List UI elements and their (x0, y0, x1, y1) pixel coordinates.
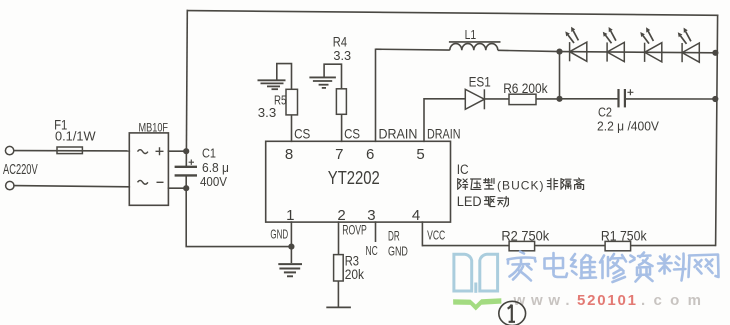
svg-text:DRAIN: DRAIN (379, 126, 418, 141)
wm char 网 (689, 255, 719, 278)
wire pin5 DRAIN riser to ES1 row (423, 99, 425, 142)
wire ES1 to R6 (484, 98, 509, 100)
svg-text:8: 8 (285, 146, 293, 163)
wire bottom bus VCC to R2 (422, 245, 509, 247)
svg-text:LED: LED (457, 194, 482, 209)
wire riser junction to ES1 row (559, 52, 561, 99)
wire L1 to LED string (498, 50, 560, 51)
watermark chinese text 家电维修资料网 (508, 252, 719, 283)
capacitor C1 plates (175, 167, 197, 176)
svg-text:DR: DR (388, 229, 400, 244)
svg-text:2.2 μ /400V: 2.2 μ /400V (597, 120, 660, 134)
IC U1 YT2202 box (266, 141, 451, 222)
wire R6 to junction (536, 98, 560, 100)
figure number circled 1 (499, 301, 526, 325)
wm char 资 (630, 253, 653, 282)
wire R5 top jog to ground (277, 64, 292, 90)
wire pin2 ROVP to R3 (338, 222, 340, 255)
LED D1 (568, 31, 587, 62)
junction node bridge-/C1 (183, 185, 189, 191)
wire right bus (716, 15, 718, 245)
wire bridge + output (168, 150, 186, 152)
wire top bus (187, 11, 717, 16)
svg-text:IC: IC (457, 162, 469, 177)
svg-text:1: 1 (286, 207, 294, 224)
LED D4 (681, 32, 700, 63)
svg-text:ES1: ES1 (469, 74, 491, 89)
svg-text:NC: NC (366, 243, 378, 258)
svg-text:6: 6 (366, 146, 374, 163)
resistor R5 body (286, 89, 298, 115)
wire LED row (560, 52, 716, 53)
svg-text:R2 750k: R2 750k (501, 229, 549, 244)
char 隔 (561, 179, 571, 190)
terminal AC220V neutral (6, 181, 14, 189)
svg-text:R1 750k: R1 750k (601, 229, 647, 244)
C2 polarity + (627, 89, 633, 95)
svg-text:CS: CS (294, 125, 310, 141)
svg-text:L1: L1 (465, 27, 477, 42)
char 驱 (485, 197, 495, 207)
svg-text:(BUCK): (BUCK) (497, 178, 544, 192)
bridge ~ - markings bottom row (138, 180, 148, 184)
ground for R4 (309, 77, 336, 88)
svg-text:3.3: 3.3 (333, 48, 351, 63)
wire pin7 to R4 (341, 114, 343, 141)
svg-text:AC220V: AC220V (3, 162, 38, 178)
svg-text:4: 4 (412, 207, 420, 224)
svg-text:GND: GND (270, 226, 288, 241)
resistor R2 body (509, 241, 534, 250)
wire junction to C2 (560, 98, 619, 100)
svg-text:VCC: VCC (427, 228, 445, 243)
wire R4 top jog to ground (324, 64, 341, 89)
terminal bar under R3 (326, 306, 351, 308)
LED D3 (643, 31, 662, 62)
wire R3 to terminal bar (337, 281, 339, 307)
resistor R4 body (336, 89, 346, 115)
diode ES1 (424, 89, 509, 109)
junction node LED cathode / right bus (712, 50, 718, 56)
wire pin6 DRAIN riser to L1 row (375, 49, 377, 141)
wire R1 to right bus corner (631, 244, 716, 246)
svg-text:GND: GND (388, 243, 408, 258)
wire left riser from top bus to C1 (186, 11, 187, 167)
bridge ~ + markings top row (138, 150, 148, 154)
wire C2 to right bus (625, 98, 715, 100)
svg-text:www.: www. (513, 292, 570, 309)
junction node C2 / right bus (712, 96, 718, 102)
svg-text:ROVP: ROVP (342, 222, 367, 237)
wire bridge - output (168, 187, 186, 189)
svg-text:7: 7 (335, 146, 343, 163)
wire AC neutral to bridge (14, 186, 129, 187)
svg-text:.com: .com (641, 292, 701, 309)
LED D2 (606, 31, 625, 62)
svg-text:CS: CS (344, 125, 360, 141)
wire C1 bottom to ground bus and to IC GND (186, 175, 291, 246)
capacitor C2 plates (619, 89, 625, 107)
wm char 维 (571, 254, 596, 278)
wm char 修 (600, 254, 626, 282)
resistor R6 body (509, 94, 536, 104)
wire pin5 corner to ES1 (424, 98, 466, 100)
svg-text:R6 200k: R6 200k (503, 81, 548, 96)
watermark book icon (454, 254, 498, 293)
char 降 (458, 179, 468, 190)
bridge rectifier MB10F (129, 133, 168, 205)
inductor L1 (376, 42, 560, 52)
wm char 电 (545, 253, 568, 277)
terminal AC220V live (5, 146, 13, 154)
wire pin1 GND drop (290, 222, 292, 247)
svg-text:YT2202: YT2202 (328, 167, 380, 188)
svg-text:MB10F: MB10F (139, 120, 169, 134)
wm char 料 (658, 254, 686, 281)
char 非 (547, 179, 557, 190)
fuse F1 (57, 147, 82, 154)
char 型 (484, 178, 494, 189)
ground for R5 (258, 80, 286, 89)
wire pin4 VCC drop to bottom bus (421, 222, 423, 246)
annotation CJK line2: 降压型（BUCK）非隔离 (458, 178, 584, 190)
junction node bridge+/C1 (183, 148, 189, 154)
svg-text:520101: 520101 (577, 292, 636, 309)
wire R2 to R1 (535, 245, 606, 247)
resistor R3 body (334, 255, 344, 281)
svg-text:3.3: 3.3 (258, 105, 276, 120)
svg-text:C2: C2 (598, 106, 612, 120)
L1 coil humps (450, 44, 498, 51)
svg-text:20k: 20k (345, 267, 365, 282)
C1 polarity + (189, 160, 194, 165)
junction node LED anode / ES1 (556, 49, 562, 55)
junction node GND pin1 (288, 244, 294, 250)
svg-text:0.1/1W: 0.1/1W (55, 129, 96, 144)
char 动 (498, 196, 509, 206)
junction node ES1/R6/C2 (556, 96, 562, 102)
svg-text:6.8 μ: 6.8 μ (202, 161, 229, 175)
resistor R1 body (605, 241, 631, 250)
L1 core bar (449, 41, 501, 43)
watermark green swoosh (453, 298, 501, 310)
svg-text:3: 3 (367, 207, 375, 224)
wire pin6 corner to L1 (376, 48, 450, 51)
svg-text:DRAIN: DRAIN (427, 126, 461, 141)
wire pin8 to R5 (291, 115, 293, 141)
wm char 家 (508, 252, 536, 281)
wire AC line to fuse to bridge (14, 150, 129, 152)
wire pin3 stub (375, 222, 377, 241)
svg-text:C1: C1 (202, 147, 216, 161)
svg-text:400V: 400V (200, 175, 228, 189)
char 压 (471, 179, 481, 189)
svg-text:5: 5 (416, 146, 424, 163)
char 离 (574, 178, 584, 189)
ground main (278, 247, 302, 277)
